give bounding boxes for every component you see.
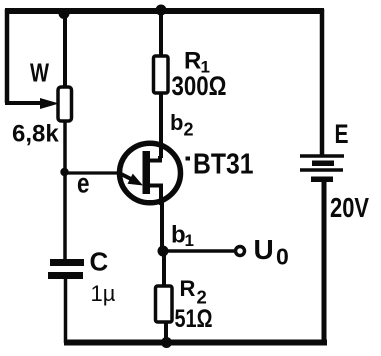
wire wiper horizontal — [5, 101, 44, 105]
svg-text:6,8k: 6,8k — [12, 121, 59, 148]
wire R2 top segment — [162, 251, 166, 286]
svg-text:U: U — [254, 234, 274, 265]
svg-text:2: 2 — [184, 120, 194, 140]
node b1 junction dot — [158, 246, 169, 257]
svg-text:R: R — [180, 276, 196, 301]
wire emitter — [65, 171, 121, 174]
transistor base bar — [143, 151, 151, 194]
wire pot top segment — [63, 11, 67, 88]
node e junction dot — [60, 168, 68, 176]
junction dot top middle node — [156, 5, 167, 16]
svg-text:300Ω: 300Ω — [172, 71, 227, 101]
transistor b1 internal step — [149, 186, 161, 206]
output terminal circle — [236, 247, 245, 256]
battery E plate short 2 — [311, 177, 333, 183]
wire cap bottom segment — [64, 279, 68, 343]
svg-text:E: E — [335, 119, 349, 149]
wire b1 lead down — [160, 200, 164, 251]
wire left side vertical — [5, 9, 10, 103]
svg-text:C: C — [90, 247, 109, 277]
wire pot bottom segment — [63, 121, 67, 259]
transistor BT31 circle — [120, 143, 181, 203]
wire bottom rail — [64, 340, 327, 346]
svg-text:W: W — [30, 58, 49, 88]
svg-text:51Ω: 51Ω — [175, 305, 213, 333]
potentiometer W body — [58, 87, 72, 121]
wire right side top — [320, 9, 325, 156]
capacitor C top plate — [50, 259, 84, 266]
battery E plate short 1 — [312, 161, 334, 167]
resistor R2 body — [156, 286, 173, 322]
wiper arrowhead — [40, 98, 59, 109]
junction dot bottom node — [161, 337, 172, 348]
wire R1 top segment — [159, 11, 163, 56]
wire top rail — [5, 8, 324, 14]
battery E plate long 1 — [300, 154, 344, 158]
svg-text:0: 0 — [276, 244, 289, 270]
emitter arrow line — [119, 173, 132, 180]
emitter arrowhead — [128, 174, 144, 186]
resistor R1 body — [154, 56, 169, 93]
wire right side bottom — [322, 179, 327, 343]
battery E plate long 2 — [300, 168, 343, 172]
svg-text:b: b — [170, 110, 183, 135]
svg-text:20V: 20V — [330, 192, 369, 223]
wire output U0 — [163, 249, 235, 253]
wire R1 bottom b2 lead — [159, 93, 163, 158]
svg-text:b: b — [171, 222, 186, 249]
svg-text:BT31: BT31 — [193, 149, 254, 181]
svg-text:1: 1 — [185, 231, 194, 250]
junction dot top left node — [59, 8, 70, 19]
stray mark before label — [186, 157, 191, 161]
transistor b2 internal step — [149, 156, 160, 161]
wire R2 bottom segment — [164, 322, 168, 343]
capacitor C bottom plate — [48, 272, 83, 279]
svg-text:1µ: 1µ — [91, 281, 116, 306]
